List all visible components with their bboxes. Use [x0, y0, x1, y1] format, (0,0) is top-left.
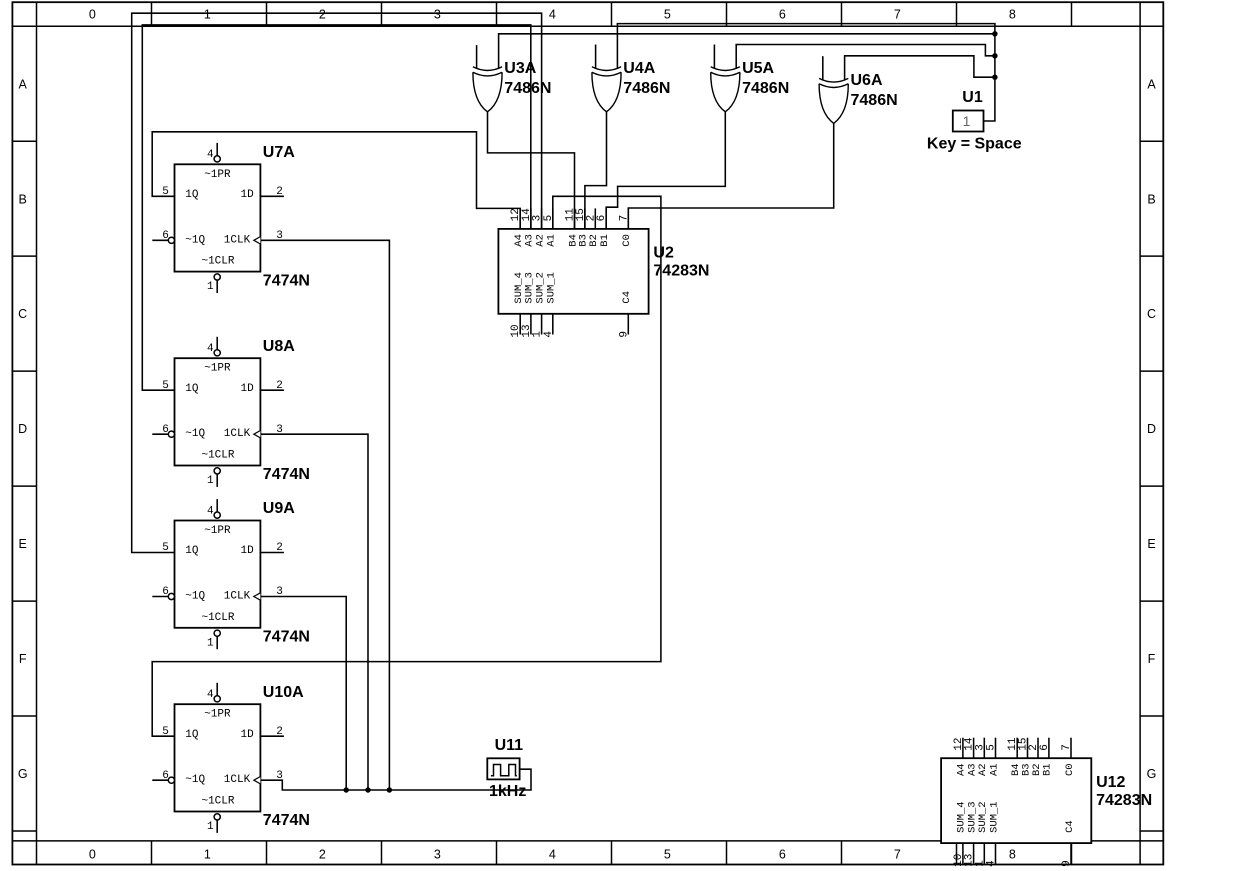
svg-text:7: 7 [618, 215, 630, 222]
wire U4A output to U2 B3 [585, 112, 607, 229]
svg-text:E: E [1147, 537, 1155, 551]
svg-text:SUM_1: SUM_1 [988, 801, 1000, 833]
svg-text:C0: C0 [621, 234, 633, 247]
XOR gate U6A 7486N [819, 56, 898, 123]
svg-text:6: 6 [596, 215, 608, 222]
wire U3A output to U2 B4 [488, 112, 575, 229]
svg-text:U12: U12 [1096, 774, 1125, 791]
svg-text:U7A: U7A [263, 144, 295, 161]
svg-text:U3A: U3A [504, 60, 536, 77]
svg-text:C: C [18, 307, 27, 321]
svg-text:3: 3 [276, 586, 283, 598]
svg-text:1: 1 [974, 860, 986, 867]
wire bus to U5A input B [736, 45, 995, 69]
svg-text:SUM_1: SUM_1 [546, 272, 558, 304]
switch U1 Key = Space [927, 89, 1022, 153]
svg-text:U5A: U5A [742, 60, 774, 77]
svg-text:B1: B1 [1042, 763, 1054, 776]
svg-text:4: 4 [549, 848, 556, 862]
svg-text:1D: 1D [240, 729, 254, 741]
svg-text:SUM_2: SUM_2 [534, 272, 546, 304]
svg-text:U6A: U6A [851, 72, 883, 89]
svg-text:7: 7 [894, 848, 901, 862]
svg-text:4: 4 [207, 149, 214, 161]
svg-text:4: 4 [549, 7, 556, 21]
svg-text:2: 2 [276, 186, 283, 198]
junction clock-U9A [344, 787, 349, 792]
svg-text:3: 3 [434, 7, 441, 21]
svg-text:SUM_2: SUM_2 [977, 801, 989, 833]
junction clock-U8A [365, 787, 370, 792]
svg-text:~1PR: ~1PR [204, 709, 231, 721]
svg-text:4: 4 [986, 860, 998, 867]
wire U1 switch to bus [617, 24, 995, 121]
svg-text:4: 4 [543, 331, 555, 338]
XOR gate U4A 7486N [592, 45, 671, 112]
svg-text:6: 6 [779, 7, 786, 21]
wire bus to U6A input B [845, 56, 995, 80]
svg-text:~1PR: ~1PR [204, 363, 231, 375]
svg-text:2: 2 [276, 380, 283, 392]
svg-text:F: F [1148, 652, 1156, 666]
svg-text:A: A [19, 77, 28, 91]
svg-text:6: 6 [779, 848, 786, 862]
wire U9A 1CLK to clock bus [260, 597, 346, 791]
flip-flop U8A 7474N [152, 337, 310, 487]
XOR gate U3A 7486N [473, 45, 552, 112]
svg-text:1Q: 1Q [185, 383, 199, 395]
svg-text:7474N: 7474N [263, 629, 310, 646]
svg-text:U4A: U4A [623, 60, 655, 77]
svg-text:1D: 1D [240, 545, 254, 557]
junction bus-U5A [992, 53, 997, 58]
svg-text:7486N: 7486N [623, 80, 670, 97]
svg-text:1: 1 [207, 821, 214, 833]
svg-text:1CLK: 1CLK [224, 591, 251, 603]
svg-text:1CLK: 1CLK [224, 428, 251, 440]
svg-text:2: 2 [276, 726, 283, 738]
svg-text:C: C [1147, 307, 1156, 321]
junction bus-U3A [992, 31, 997, 36]
svg-text:6: 6 [1039, 744, 1051, 751]
adder U12 74283N [941, 737, 1152, 867]
svg-text:3: 3 [434, 848, 441, 862]
svg-text:7486N: 7486N [851, 92, 898, 109]
svg-text:1CLK: 1CLK [224, 774, 251, 786]
svg-text:7474N: 7474N [263, 812, 310, 829]
svg-text:3: 3 [276, 770, 283, 782]
svg-text:1: 1 [532, 331, 544, 338]
svg-text:B1: B1 [599, 234, 611, 247]
svg-text:0: 0 [89, 848, 96, 862]
svg-text:D: D [1147, 422, 1156, 436]
svg-text:U1: U1 [962, 89, 983, 106]
svg-text:1CLK: 1CLK [224, 234, 251, 246]
svg-text:1D: 1D [240, 383, 254, 395]
svg-text:2: 2 [319, 848, 326, 862]
svg-text:~1Q: ~1Q [185, 774, 205, 786]
svg-text:A2: A2 [977, 763, 989, 776]
svg-text:B: B [19, 192, 27, 206]
svg-text:1: 1 [207, 281, 214, 293]
svg-text:3: 3 [276, 230, 283, 242]
svg-text:5: 5 [664, 848, 671, 862]
svg-text:D: D [18, 422, 27, 436]
svg-text:1Q: 1Q [185, 729, 199, 741]
svg-text:4: 4 [207, 343, 214, 355]
svg-text:~1PR: ~1PR [204, 525, 231, 537]
svg-text:U11: U11 [495, 737, 524, 754]
svg-text:A: A [1147, 77, 1156, 91]
svg-text:A2: A2 [534, 234, 546, 247]
svg-text:E: E [19, 537, 27, 551]
svg-text:5: 5 [543, 215, 555, 222]
svg-text:5: 5 [986, 744, 998, 751]
svg-text:1Q: 1Q [185, 189, 199, 201]
svg-text:4: 4 [207, 689, 214, 701]
svg-text:G: G [1147, 767, 1157, 781]
svg-text:5: 5 [162, 380, 169, 392]
svg-text:2: 2 [319, 7, 326, 21]
svg-text:9: 9 [618, 331, 630, 338]
flip-flop U7A 7474N [152, 143, 310, 293]
svg-text:6: 6 [162, 770, 169, 782]
svg-text:Key = Space: Key = Space [927, 135, 1022, 152]
svg-text:6: 6 [162, 230, 169, 242]
svg-text:C4: C4 [621, 291, 633, 304]
wire U7A 1Q to U2 A4 [152, 132, 520, 229]
svg-text:~1Q: ~1Q [185, 591, 205, 603]
svg-text:0: 0 [89, 7, 96, 21]
svg-text:1: 1 [963, 113, 971, 129]
wire U8A 1Q to U2 A3 [142, 25, 531, 390]
svg-text:7: 7 [894, 7, 901, 21]
junction clock-U7A [387, 787, 392, 792]
svg-text:U9A: U9A [263, 500, 295, 517]
svg-text:7474N: 7474N [263, 466, 310, 483]
junction bus-U6A [992, 75, 997, 80]
svg-text:1kHz: 1kHz [489, 783, 526, 800]
wire U5A output to U2 B1 [606, 112, 725, 229]
svg-text:C4: C4 [1064, 820, 1076, 833]
svg-text:U8A: U8A [263, 338, 295, 355]
svg-text:1: 1 [204, 7, 211, 21]
svg-text:7474N: 7474N [263, 272, 310, 289]
wire bus to U3A input B [499, 34, 995, 69]
svg-text:74283N: 74283N [1096, 792, 1152, 809]
svg-text:~1Q: ~1Q [185, 234, 205, 246]
svg-text:7486N: 7486N [504, 80, 551, 97]
svg-text:1: 1 [204, 848, 211, 862]
svg-text:B: B [1147, 192, 1155, 206]
svg-text:G: G [18, 767, 28, 781]
clock source U11 1kHz [487, 737, 526, 800]
svg-text:5: 5 [162, 542, 169, 554]
XOR gate U5A 7486N [711, 45, 790, 112]
wire U9A 1Q to U2 A2 [132, 13, 542, 552]
wire U10A 1Q to U2 A1 [152, 196, 661, 736]
svg-text:~1Q: ~1Q [185, 428, 205, 440]
wire U7A 1CLK to clock bus [260, 240, 389, 790]
svg-text:C0: C0 [1064, 763, 1076, 776]
svg-text:5: 5 [162, 726, 169, 738]
svg-text:~1CLR: ~1CLR [201, 796, 234, 808]
svg-text:U2: U2 [653, 245, 674, 262]
svg-text:6: 6 [162, 586, 169, 598]
svg-text:3: 3 [974, 744, 986, 751]
svg-text:~1CLR: ~1CLR [201, 256, 234, 268]
wire U8A 1CLK to clock bus [260, 434, 368, 790]
svg-text:A1: A1 [546, 234, 558, 247]
svg-text:1: 1 [207, 475, 214, 487]
svg-text:7486N: 7486N [742, 80, 789, 97]
svg-text:~1CLR: ~1CLR [201, 612, 234, 624]
svg-text:1: 1 [207, 637, 214, 649]
svg-text:1D: 1D [240, 189, 254, 201]
svg-text:~1CLR: ~1CLR [201, 450, 234, 462]
wire U10A 1CLK to U11 clock [260, 769, 531, 790]
svg-text:5: 5 [664, 7, 671, 21]
svg-text:7: 7 [1061, 744, 1073, 751]
svg-text:F: F [19, 652, 27, 666]
flip-flop U9A 7474N [152, 499, 310, 649]
svg-text:~1PR: ~1PR [204, 169, 231, 181]
svg-text:4: 4 [207, 505, 214, 517]
svg-text:8: 8 [1009, 848, 1016, 862]
svg-text:U10A: U10A [263, 684, 304, 701]
svg-text:8: 8 [1009, 7, 1016, 21]
svg-text:9: 9 [1061, 860, 1073, 867]
svg-text:A1: A1 [988, 763, 1000, 776]
svg-text:3: 3 [276, 424, 283, 436]
flip-flop U10A 7474N [152, 683, 310, 833]
svg-text:2: 2 [276, 542, 283, 554]
svg-text:1Q: 1Q [185, 545, 199, 557]
wire U6A output to U2 C0 [628, 123, 833, 228]
svg-text:6: 6 [162, 424, 169, 436]
adder U2 74283N [498, 208, 709, 338]
svg-text:5: 5 [162, 186, 169, 198]
svg-text:3: 3 [532, 215, 544, 222]
svg-text:74283N: 74283N [653, 263, 709, 280]
